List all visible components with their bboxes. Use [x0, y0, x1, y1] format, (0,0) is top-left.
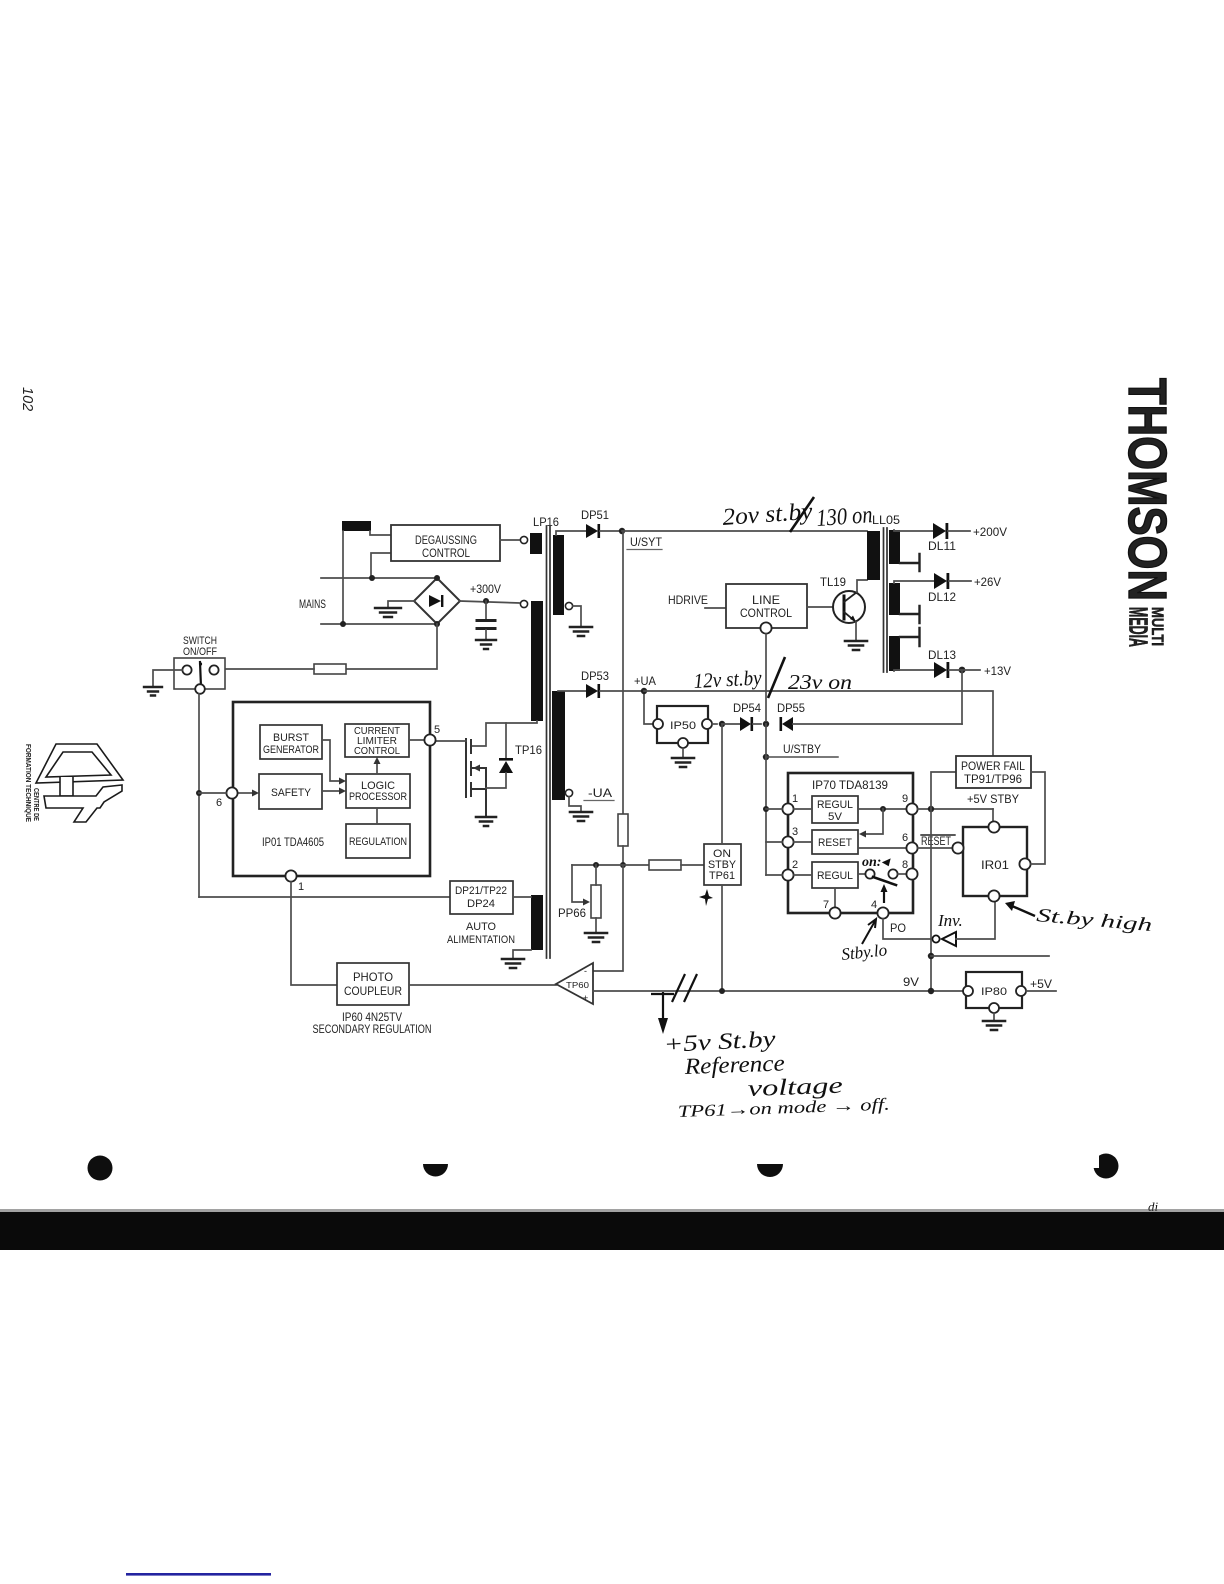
- node stub wire: [928, 953, 934, 959]
- wire bar to degaussing box top input: [370, 531, 391, 535]
- wire TP61 down to +5V stby wire: [721, 885, 723, 991]
- svg-text:REGUL: REGUL: [817, 870, 853, 882]
- wire photo coupler to TP60: [409, 984, 556, 986]
- pin 7: [829, 907, 840, 918]
- wire logic processor to current limiter: [376, 764, 378, 774]
- svg-text:DP54: DP54: [733, 701, 761, 715]
- potentiometer PP66: [591, 885, 601, 918]
- svg-text:ON/OFF: ON/OFF: [183, 646, 217, 658]
- wire stub right: [931, 955, 1049, 957]
- LL05 secondary winding 3: [889, 636, 900, 671]
- pen arrow IR01 bottom: [1012, 906, 1035, 916]
- wire bridge bottom to switch line: [346, 624, 437, 669]
- LL05 primary winding: [867, 531, 880, 580]
- diode DL13: [934, 662, 949, 678]
- svg-text:LINE: LINE: [752, 593, 780, 607]
- POWER FAIL box: [956, 756, 1031, 788]
- polarity dot secondary 1: [565, 602, 572, 609]
- svg-text:+UA: +UA: [634, 674, 656, 688]
- wire safety to logic processor: [322, 790, 339, 792]
- ground IP80: [983, 1021, 1005, 1030]
- wire DP51 to U/SYT node: [600, 530, 622, 532]
- svg-text:DP55: DP55: [777, 701, 805, 715]
- svg-text:2: 2: [792, 859, 798, 871]
- svg-text:REGULATION: REGULATION: [349, 836, 407, 848]
- wire HDRIVE to line control: [705, 607, 726, 609]
- polarity dot primary winding: [520, 600, 527, 607]
- svg-text:7: 7: [823, 899, 829, 911]
- LL05 secondary winding 2: [889, 583, 900, 615]
- wire secondary2 to ground: [569, 797, 581, 812]
- svg-text:+13V: +13V: [984, 664, 1011, 678]
- wire rail to pin1: [766, 808, 782, 810]
- wire IP50 to node: [712, 723, 717, 725]
- svg-text:5: 5: [434, 724, 440, 736]
- IR01 box: [963, 827, 1027, 896]
- wire secondary1 bottom to ground: [573, 606, 581, 627]
- ground PP66: [585, 933, 607, 942]
- mains top wire: [321, 577, 437, 579]
- wire U/STBY rail down: [765, 724, 767, 875]
- svg-text:+300V: +300V: [470, 582, 501, 596]
- wire gate from pin 5: [436, 740, 466, 742]
- RESET block: [812, 830, 858, 854]
- LL05 core: [884, 528, 888, 672]
- LOGIC PROCESSOR block: [346, 774, 410, 808]
- wire TL19 emitter to ground: [855, 622, 857, 641]
- DP21/TP22 DP24 box: [450, 881, 513, 914]
- pin 9: [906, 803, 917, 814]
- wire resistor to TP61 box: [681, 864, 704, 866]
- svg-text:MEDIA: MEDIA: [1124, 607, 1154, 647]
- svg-text:BURST: BURST: [273, 732, 309, 744]
- wire rail to pin2: [766, 874, 812, 876]
- wire rail to pin6: [199, 792, 226, 794]
- wire line control to TL19 base: [807, 606, 842, 608]
- pin 1: [782, 803, 793, 814]
- pin 5: [424, 734, 435, 745]
- svg-text:CONTROL: CONTROL: [354, 745, 400, 757]
- mains input bar: [342, 521, 371, 531]
- wire +5V stby rail down: [930, 809, 932, 991]
- punch mark 4: [1088, 1148, 1119, 1179]
- node +5V stby rail: [928, 806, 934, 812]
- svg-text:DL12: DL12: [928, 590, 956, 604]
- pin 8: [906, 868, 917, 879]
- handwritten star: [699, 889, 713, 906]
- transistor TL19: [833, 591, 865, 623]
- svg-text:DP53: DP53: [581, 669, 609, 683]
- svg-text:TL19: TL19: [820, 575, 846, 589]
- svg-text:POWER FAIL: POWER FAIL: [961, 759, 1025, 773]
- wire node to DP54: [722, 723, 741, 725]
- wire feedback to reset: [866, 809, 883, 834]
- svg-text:PO: PO: [890, 921, 906, 935]
- wire inverter to IR01 bottom: [956, 902, 995, 939]
- pen arrow at mode switch: [883, 890, 885, 903]
- fuse resistor R?: [314, 664, 346, 674]
- svg-text:U/STBY: U/STBY: [783, 742, 821, 756]
- svg-text:SAFETY: SAFETY: [271, 787, 312, 799]
- body diode TP16: [486, 723, 513, 788]
- wire DP55 to +13V rail: [793, 723, 962, 725]
- regulator IP50: [653, 706, 712, 748]
- svg-text:IP80: IP80: [981, 986, 1007, 998]
- wire pin1 to regul5v: [794, 808, 812, 810]
- svg-text:PHOTO: PHOTO: [353, 970, 393, 984]
- LP16 auto-aliment winding: [531, 895, 543, 950]
- comparator TP60: [556, 963, 593, 1004]
- ground IP50: [672, 758, 694, 767]
- svg-text:TP16: TP16: [515, 743, 542, 757]
- node regul5v/reset feedback: [880, 806, 886, 812]
- svg-text:IP50: IP50: [670, 720, 696, 732]
- bottom black bar: [0, 1209, 1224, 1212]
- svg-text:on:◂: on:◂: [862, 855, 891, 870]
- svg-text:MAINS: MAINS: [299, 597, 326, 611]
- node TP61 line on +5V wire: [719, 988, 725, 994]
- svg-text:-UA: -UA: [588, 786, 612, 800]
- wire U/SYT rail down: [622, 531, 624, 814]
- wire DP21 box to winding: [513, 896, 531, 898]
- wire +UA to POWER FAIL: [644, 691, 993, 756]
- svg-text:COUPLEUR: COUPLEUR: [344, 984, 402, 998]
- wire secondary1 top to DP51: [556, 531, 586, 535]
- wire U/SYT to LL05: [622, 530, 867, 532]
- bridge rectifier DP01: [414, 575, 460, 627]
- svg-text:CONTROL: CONTROL: [740, 606, 792, 620]
- wire regul to switch: [858, 873, 865, 875]
- svg-text:SECONDARY REGULATION: SECONDARY REGULATION: [313, 1022, 432, 1036]
- wire to PP66 wiper: [572, 865, 583, 902]
- wire +13V node down to DP55: [961, 670, 963, 724]
- node degauss/mains: [369, 575, 375, 581]
- diode DP55: [780, 717, 794, 731]
- svg-text:DP24: DP24: [467, 898, 495, 910]
- svg-text:IP70 TDA8139: IP70 TDA8139: [812, 778, 888, 792]
- degaussing control box U?: [391, 525, 500, 561]
- wire DL12 to +26V: [949, 580, 971, 582]
- wire rail up to POWER FAIL left: [931, 772, 956, 809]
- SAFETY block: [259, 774, 322, 809]
- wire POWER FAIL right to IR01 right: [1031, 772, 1045, 864]
- mode switch contacts: [865, 869, 897, 885]
- blue underline: [126, 1573, 271, 1576]
- wire rail to pin3: [766, 841, 812, 843]
- node pin6 tap: [196, 790, 202, 796]
- svg-text:+: +: [583, 993, 588, 1003]
- node +13V: [959, 667, 966, 674]
- svg-text:TP61: TP61: [709, 870, 735, 882]
- svg-text:PP66: PP66: [558, 906, 586, 920]
- diode DP54: [740, 717, 753, 731]
- svg-text:TP91/TP96: TP91/TP96: [964, 772, 1022, 786]
- node U/SYT: [619, 528, 625, 534]
- LP16 degauss winding: [530, 533, 542, 554]
- polarity dot degauss winding: [520, 536, 527, 543]
- REGUL block: [812, 862, 858, 888]
- pin 3: [782, 836, 793, 847]
- REGULATION block: [346, 824, 410, 858]
- svg-text:FORMATION TECHNIQUE: FORMATION TECHNIQUE: [24, 744, 31, 822]
- resistor on U/SYT rail: [618, 814, 628, 846]
- svg-text:9: 9: [902, 793, 908, 805]
- svg-text:HDRIVE: HDRIVE: [668, 593, 708, 607]
- pin 6: [226, 787, 237, 798]
- inverter gate: [932, 932, 956, 946]
- ground TL19: [845, 641, 867, 650]
- wire winding bottom to ground: [513, 950, 531, 959]
- svg-text:1: 1: [298, 881, 304, 893]
- svg-text:3: 3: [792, 826, 798, 838]
- wire DP53 to +UA node: [600, 690, 644, 692]
- svg-text:102: 102: [19, 387, 35, 411]
- diode DL12: [934, 573, 949, 589]
- svg-text:9V: 9V: [903, 975, 919, 989]
- node U/STBY: [763, 754, 769, 760]
- svg-text:CONTROL: CONTROL: [422, 546, 470, 560]
- wire bridge right to +300V node and winding: [460, 601, 519, 603]
- ground TP16 source: [476, 817, 496, 826]
- wire pin9 to +5VSTBY rail: [918, 808, 993, 810]
- ground bridge left: [375, 608, 401, 617]
- svg-text:REGUL: REGUL: [817, 799, 853, 811]
- wire current limiter to pin5: [409, 739, 424, 741]
- filter capacitor C?: [477, 601, 495, 640]
- LP16 secondary winding 2: [552, 691, 565, 800]
- LP16 secondary winding 1: [553, 535, 564, 615]
- wire +UA node down to IP50: [644, 691, 653, 724]
- winding tap bar 1: [900, 554, 920, 571]
- svg-text:1: 1: [792, 793, 798, 805]
- wire regul to pin7: [834, 888, 836, 907]
- wire switch common down left rail: [198, 694, 200, 897]
- wire pin1 to photo coupler: [291, 882, 337, 985]
- svg-text:CENTRE DE: CENTRE DE: [32, 788, 39, 821]
- BURST GENERATOR block: [260, 725, 322, 759]
- resistor to ON STBY: [649, 860, 681, 870]
- svg-text:RESET: RESET: [818, 837, 852, 849]
- node PP66 top: [593, 862, 599, 868]
- wire bar to lower mains line: [342, 531, 344, 624]
- svg-text:PROCESSOR: PROCESSOR: [349, 791, 407, 803]
- LP16 primary winding: [531, 601, 543, 721]
- wire IP80 out +5V: [1026, 990, 1056, 992]
- mains bottom wire: [321, 623, 437, 625]
- wire IP50 ground: [682, 748, 684, 758]
- pin 2: [782, 869, 793, 880]
- node divider: [620, 862, 626, 868]
- wire resistor to switch: [219, 668, 314, 670]
- wire winding3 to DL13: [894, 670, 934, 671]
- transformer LP16 core: [547, 526, 551, 958]
- svg-text:RESET: RESET: [921, 834, 951, 848]
- node rail pin1: [763, 806, 769, 812]
- punch mark 3: [757, 1164, 783, 1177]
- reference arrow down: [651, 992, 674, 1022]
- winding tap bar 2: [900, 606, 920, 623]
- svg-text:130 on: 130 on: [816, 502, 874, 532]
- svg-text:+5V STBY: +5V STBY: [967, 792, 1019, 806]
- REGUL 5V block: [812, 796, 858, 823]
- ON STBY TP61 box: [704, 844, 741, 885]
- wire secondary2 top to DP53: [558, 690, 586, 692]
- svg-text:U/SYT: U/SYT: [630, 535, 663, 549]
- wire DP54 to node: [753, 723, 761, 725]
- svg-text:DL11: DL11: [928, 539, 956, 553]
- IR01 right pin: [1019, 858, 1030, 869]
- wire pin9 rail to IR01 top: [992, 809, 994, 821]
- svg-text:DL13: DL13: [928, 648, 956, 662]
- ground switch: [144, 687, 162, 696]
- line control bottom pin: [760, 622, 771, 633]
- wire winding1 to DL11: [894, 530, 933, 531]
- svg-text:THOMSON: THOMSON: [1117, 378, 1177, 601]
- svg-text:+200V: +200V: [973, 525, 1007, 539]
- svg-text:LL05: LL05: [872, 513, 900, 527]
- wire DL11 to +200V: [948, 530, 970, 532]
- ground secondary1: [570, 627, 592, 636]
- wire node down to TP61: [721, 724, 723, 844]
- wire pin6 to safety: [238, 792, 252, 794]
- diode DL11: [933, 523, 948, 539]
- svg-text:Inv.: Inv.: [937, 911, 963, 930]
- node 9V: [928, 988, 934, 994]
- winding tap bar 3: [900, 628, 920, 646]
- pin 6: [906, 842, 917, 853]
- node mains lower: [340, 621, 346, 627]
- hash marks on wire: [672, 974, 697, 1002]
- svg-text:+5V: +5V: [1030, 977, 1052, 991]
- node IP50/TP61: [719, 721, 725, 727]
- svg-text:DP21/TP22: DP21/TP22: [455, 885, 507, 897]
- svg-text:AUTO: AUTO: [466, 921, 496, 933]
- wire regul5v to pin9: [858, 808, 906, 810]
- CURRENT LIMITER CONTROL block: [345, 724, 409, 757]
- wire pin4 to inverter: [883, 919, 932, 939]
- svg-text:8: 8: [902, 859, 908, 871]
- pen stroke at pin4: [862, 919, 876, 944]
- svg-text:6: 6: [902, 832, 908, 844]
- regulator IP80: [963, 972, 1026, 1013]
- wire TL19 collector to LL05: [857, 580, 867, 592]
- LINE CONTROL box: [726, 584, 807, 628]
- CFT logo: [36, 744, 123, 822]
- svg-text:+26V: +26V: [974, 575, 1001, 589]
- wire primary bottom to TP16 drain: [471, 721, 537, 746]
- node DP54/DP55: [763, 721, 769, 727]
- wire degaussing box lower input: [371, 553, 391, 578]
- diode DP51: [586, 524, 600, 538]
- wire degaussing box to LP16 winding: [500, 539, 519, 541]
- pin 1: [285, 870, 296, 881]
- svg-text:TP60: TP60: [566, 980, 589, 990]
- svg-text:DP51: DP51: [581, 508, 609, 522]
- svg-text:23v on: 23v on: [788, 670, 852, 694]
- wire DL13 to +13V: [949, 669, 980, 671]
- ground capacitor: [476, 640, 496, 649]
- wire bridge left to ground: [388, 601, 414, 608]
- ground -UA: [570, 812, 592, 821]
- IR01 left pin: [952, 842, 963, 853]
- node +300V: [483, 598, 489, 604]
- svg-text:ALIMENTATION: ALIMENTATION: [447, 934, 515, 946]
- wire reset to pin6: [858, 847, 906, 849]
- diode DP53: [586, 684, 600, 698]
- IR01 bottom pin: [988, 890, 999, 901]
- wire resistor to node: [622, 846, 624, 865]
- wire node to TP60 minus input: [593, 865, 623, 971]
- PHOTO COUPLEUR box: [337, 963, 409, 1005]
- svg-text:5V: 5V: [828, 811, 843, 823]
- IR01 top pin: [988, 821, 999, 832]
- polarity dot secondary 2: [565, 789, 572, 796]
- wire switch to pin8: [898, 873, 906, 875]
- punch mark 1: [88, 1156, 113, 1181]
- IC IP01 TDA4605 outer box: [233, 702, 430, 876]
- wire regulation to logic processor: [376, 808, 378, 824]
- svg-text:GENERATOR: GENERATOR: [263, 744, 319, 756]
- switch S1: [174, 658, 225, 694]
- punch mark 2: [423, 1164, 448, 1177]
- LL05 secondary winding 1: [889, 530, 900, 564]
- svg-text:4: 4: [871, 899, 877, 911]
- node +UA: [641, 688, 647, 694]
- svg-text:IR01: IR01: [981, 858, 1009, 872]
- wire line control pin down to DP54 node: [765, 634, 767, 721]
- svg-text:6: 6: [216, 797, 222, 809]
- wire stby divider row: [572, 864, 649, 866]
- wire winding2 to DL12: [894, 581, 934, 583]
- wire burst gen to logic processor: [322, 740, 339, 781]
- wire IP80 ground: [993, 1013, 995, 1021]
- wire switch left to ground: [153, 670, 182, 687]
- IC IP70 TDA8139 box: [788, 773, 913, 913]
- ground auto aliment: [502, 959, 524, 968]
- pin 4: [877, 907, 888, 918]
- wire TP60 plus output to IP80: [593, 990, 966, 992]
- svg-text:-: -: [584, 966, 587, 976]
- svg-text:DEGAUSSING: DEGAUSSING: [415, 533, 477, 547]
- wire pin6 to IR01 left: [918, 847, 953, 849]
- transistor TP16 mosfet: [466, 739, 486, 816]
- svg-text:IP01 TDA4605: IP01 TDA4605: [262, 835, 324, 849]
- svg-text:12v st.by: 12v st.by: [693, 665, 763, 693]
- wire left rail to DP21 box: [199, 896, 450, 898]
